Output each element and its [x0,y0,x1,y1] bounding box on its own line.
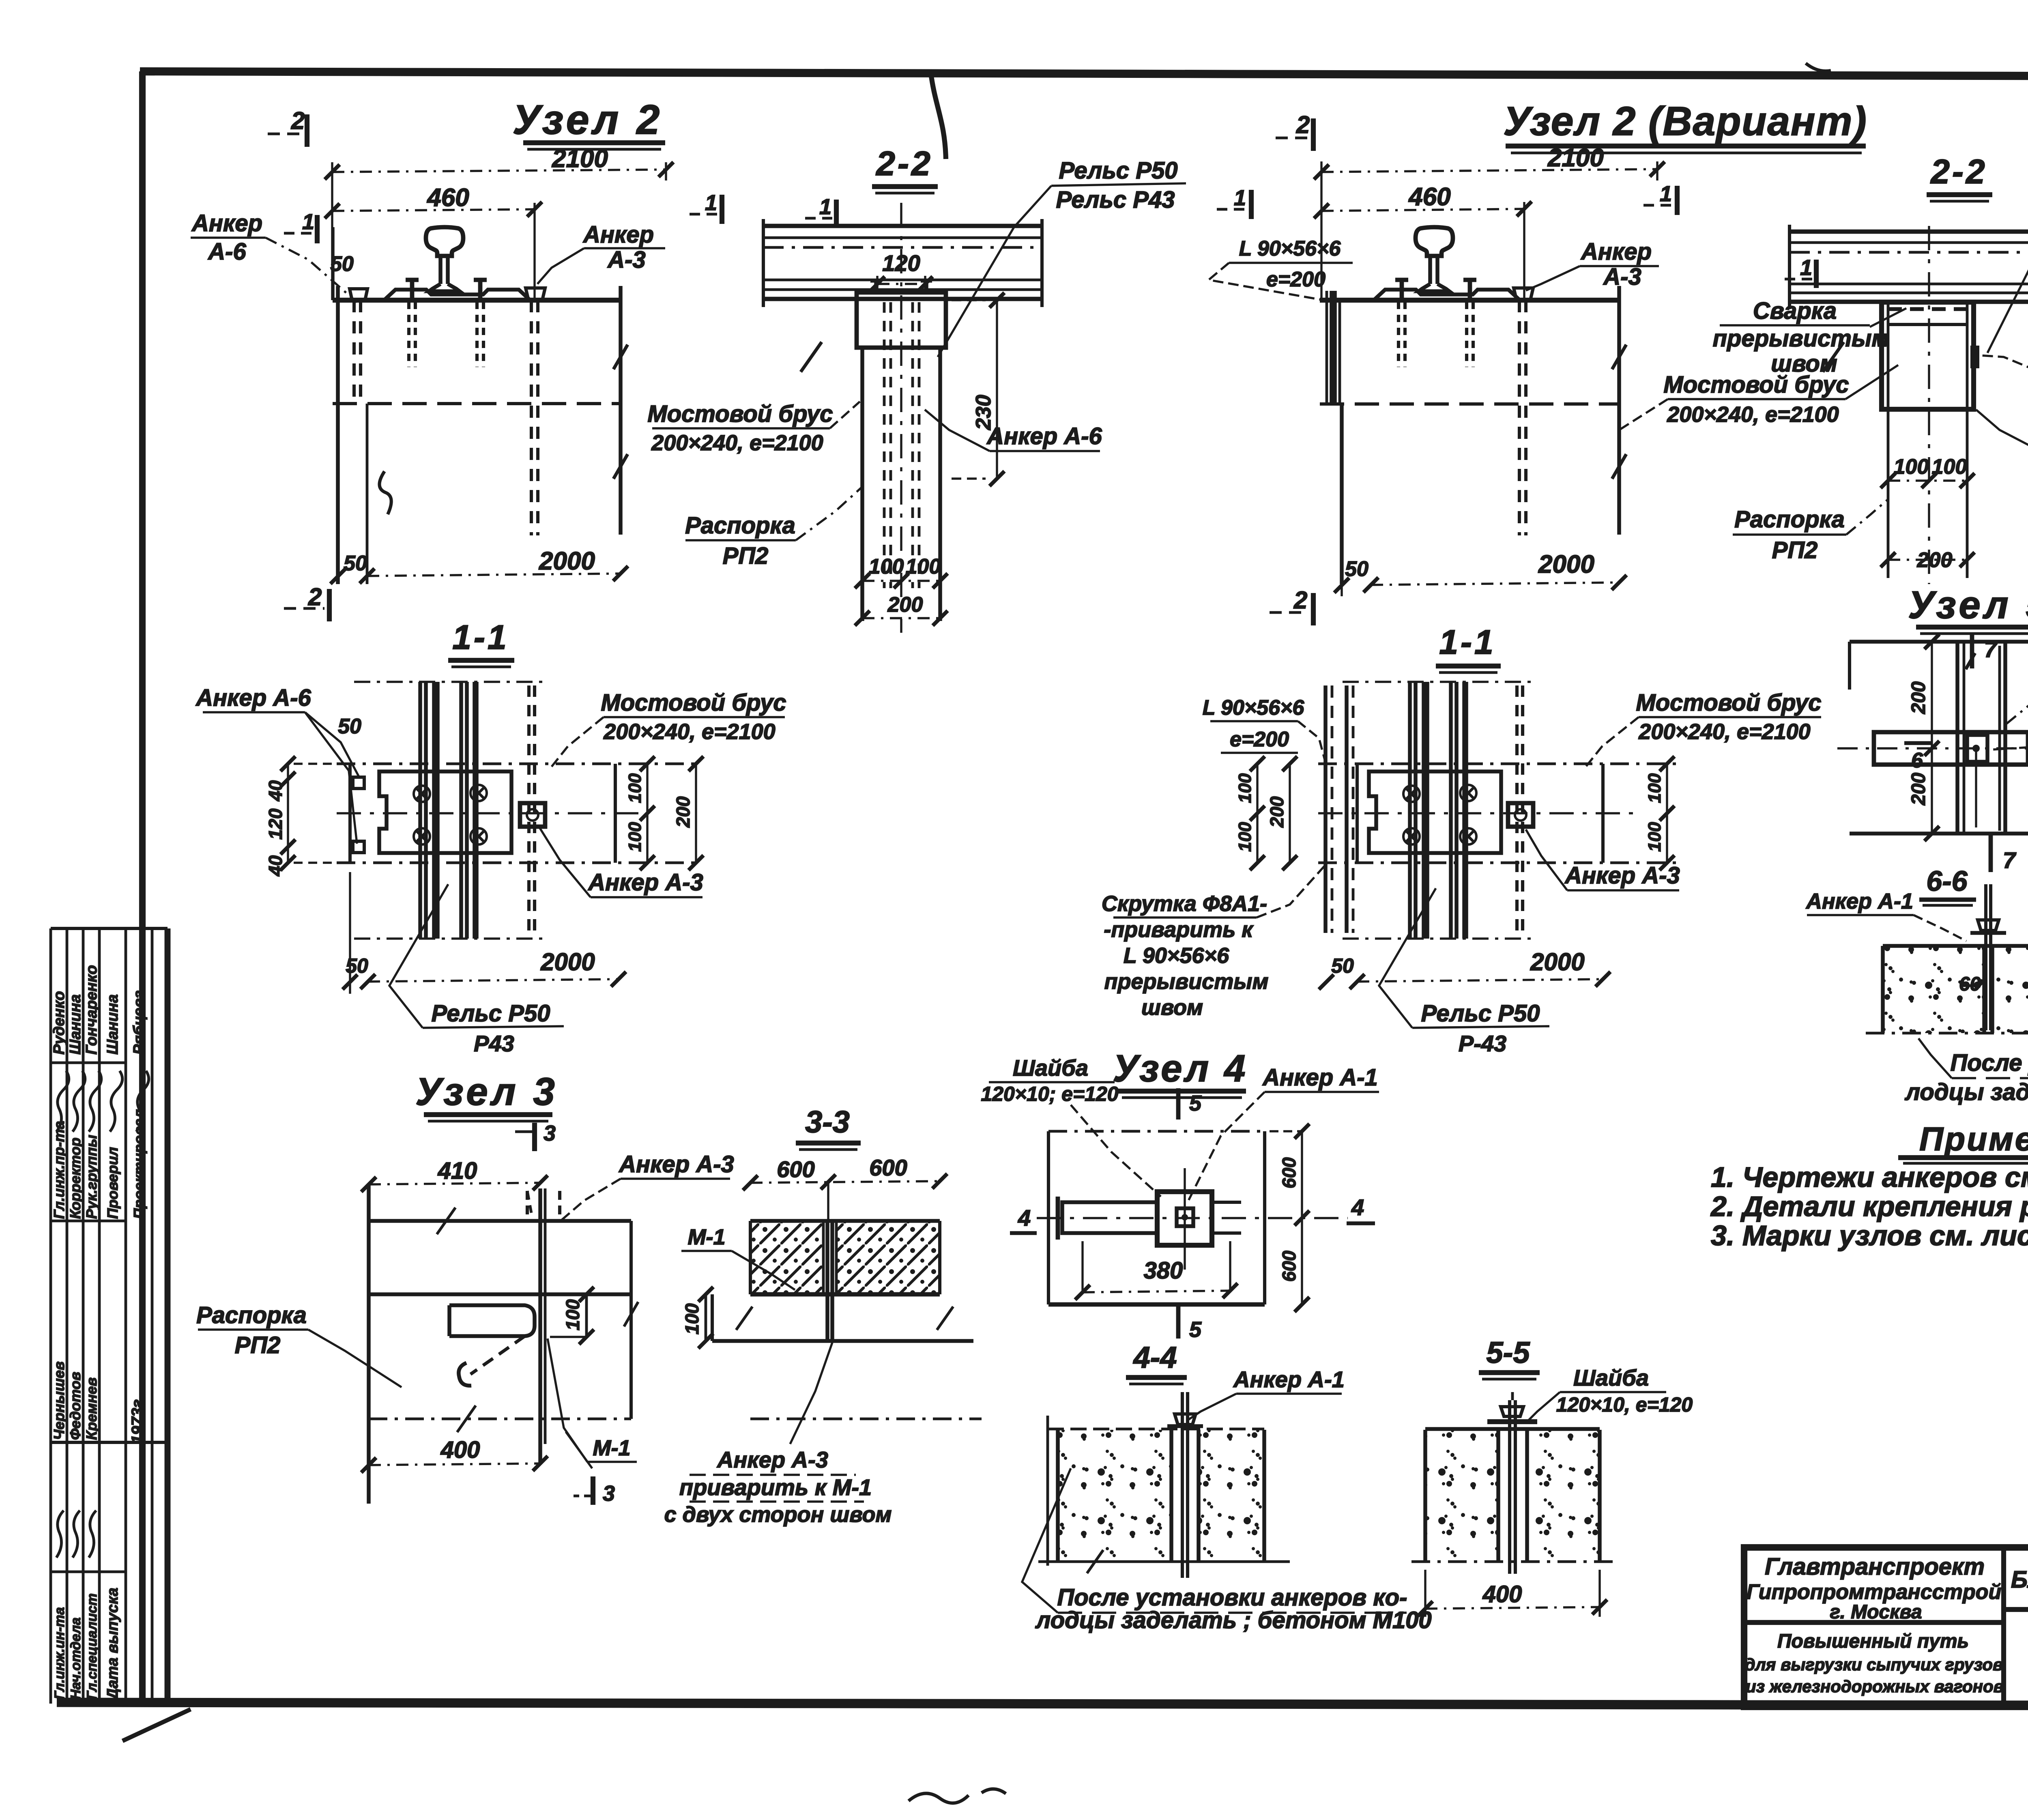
anchor A-3 embedded (left) [526,288,545,535]
svg-text:e=200: e=200 [1230,728,1289,751]
svg-text:М-1: М-1 [688,1225,726,1249]
svg-text:L 90×56×6: L 90×56×6 [1203,696,1305,720]
svg-text:7: 7 [2003,847,2017,873]
svg-text:Рельс Р50: Рельс Р50 [1421,1000,1540,1027]
concrete band hatched (3-3) [750,1221,940,1294]
svg-text:Корректор: Корректор [67,1137,84,1219]
label Mostovoy brus (1-1 variant) [1586,690,1822,767]
rail beam side view (variant 2-2) [1790,225,2028,372]
svg-text:40: 40 [265,780,286,801]
svg-text:Рельс Р43: Рельс Р43 [1056,187,1175,213]
title 4-4 [1126,1341,1187,1384]
section mark 2 bottom (left drawing) [284,583,329,621]
label Rels R50 R43 (1-1 left) [389,884,564,1056]
svg-text:100: 100 [1645,822,1665,852]
section mark 5 bottom (uzel 4) [1178,1306,1202,1342]
section mark 1 right (variant) [1643,182,1677,215]
svg-text:прерывистым: прерывистым [1104,969,1269,994]
dimension 100 100 (variant 2-2) [1881,455,1975,488]
label Rasporka RP2 (uzel 3) [196,1302,402,1387]
rail lines plan (1-1 left) [354,682,545,939]
anchor bolt (4-4) [1167,1392,1203,1578]
svg-text:Гл.инж.пр-та: Гл.инж.пр-та [51,1121,67,1219]
svg-text:1: 1 [1234,186,1246,210]
svg-text:2000: 2000 [540,948,595,976]
svg-text:60: 60 [1959,973,1981,995]
title 3-3 [796,1105,861,1150]
title Uzel 2 [513,97,665,149]
svg-text:с двух сторон швом: с двух сторон швом [664,1502,892,1527]
anchor bar A-1 plan (uzel 5) [1837,732,2028,827]
svg-text:Гипропромтрансстрой: Гипропромтрансстрой [1747,1580,2001,1604]
label Mostovoy brus (1-1 left) [552,690,786,767]
anchor dashed (uzel 3) [527,1191,560,1221]
bolts in plan (1-1 left) [353,777,487,853]
label Anker A-3 (uzel 3) [561,1151,734,1221]
svg-text:600: 600 [1278,1157,1300,1188]
svg-text:2100: 2100 [1547,144,1604,172]
dimensions left side (1-1 variant) [1235,756,1297,870]
title 1-1 (left) [448,618,514,667]
label Anker A-3 (left) [537,221,665,284]
svg-text:200×240, e=2100: 200×240, e=2100 [1667,402,1839,427]
title Uzel 5 [1908,583,2028,634]
svg-text:Гл.специалист: Гл.специалист [84,1593,100,1700]
svg-text:1973г.: 1973г. [129,1395,146,1444]
dimension 2100 (variant) [1314,144,1665,300]
notes title Primechaniya [1898,1121,2028,1163]
svg-text:50: 50 [344,552,367,575]
svg-text:2000: 2000 [539,547,595,575]
dimension 2000 (left elevation) [331,547,628,584]
rail clamp plate (1-1 variant) [1369,771,1501,853]
svg-text:4: 4 [1018,1205,1031,1231]
svg-text:Рук.группы: Рук.группы [83,1135,100,1219]
dimension 400 (5-5) [1418,1570,1607,1617]
svg-text:М-1: М-1 [593,1436,631,1460]
rail profile R50 (left) [384,227,530,300]
svg-text:Анкер А-3: Анкер А-3 [587,869,703,896]
svg-text:РП2: РП2 [1772,537,1818,563]
label Shayba (uzel 4) [981,1055,1161,1197]
svg-text:200: 200 [887,593,923,617]
svg-text:Повышенный путь: Повышенный путь [1777,1631,1969,1652]
dimension 100 100 200 (1-1 left) [625,756,703,870]
label angle L90x56x6 (1-1 variant) [1203,696,1326,763]
revision table left margin [51,928,168,1704]
svg-text:100: 100 [625,773,645,803]
label angle L90x56x6 (variant left) [1209,237,1353,301]
dimension 200 200 (uzel 5) [1908,634,1939,841]
svg-text:Рельс Р50: Рельс Р50 [432,1000,550,1027]
rail lines plan (1-1 variant) [1343,682,1534,939]
section mark 4 marks (uzel 4) [1010,1195,1375,1233]
svg-text:600: 600 [869,1155,907,1180]
svg-text:200×240, e=2100: 200×240, e=2100 [651,431,823,455]
svg-text:2: 2 [291,107,305,134]
svg-text:4-4: 4-4 [1133,1341,1177,1374]
timber band plan (1-1 variant) [1318,764,1679,863]
svg-text:2-2: 2-2 [1930,153,1987,191]
anchor bolt washer (5-5) [1487,1392,1537,1574]
svg-text:Мостовой брус: Мостовой брус [601,690,786,716]
svg-text:Гл.инж.ин-та: Гл.инж.ин-та [52,1607,67,1700]
svg-text:100: 100 [562,1299,583,1330]
dimension 100 (3-3) [681,1287,713,1349]
rail clamp plate (1-1 left) [379,771,511,853]
section mark 2 top (left drawing) [268,107,307,147]
label Mostovoy brus (left 2-2) [647,401,860,455]
title Uzel 4 [1113,1047,1248,1098]
svg-text:Анкер: Анкер [582,221,654,248]
section mark 3 bottom (uzel 3) [574,1476,615,1506]
dimension 410 (uzel 3) [361,1158,548,1192]
label Anker A-1 (uzel 4) [1188,1064,1379,1201]
svg-text:Узел 2 (Вариант): Узел 2 (Вариант) [1503,99,1867,144]
dimension 230 (left 2-2) [952,293,1004,486]
svg-text:Узел 4: Узел 4 [1113,1047,1248,1089]
svg-text:Рябцева: Рябцева [131,990,148,1055]
fold crease mark top center [931,73,946,159]
label Anker A-6 (left 2-2) [925,410,1102,451]
svg-text:2100: 2100 [552,145,608,173]
dimension 40 120 40 (1-1 left) [265,756,337,877]
svg-text:Мостовой брус: Мостовой брус [647,401,833,427]
svg-text:4: 4 [1351,1195,1364,1220]
anchor A-6 embedded (left) [350,289,367,406]
label angle L90x56x6 (variant 2-2) [1979,350,2028,403]
dimension 2000 (1-1 left) [343,872,626,994]
svg-text:Анкер А-1: Анкер А-1 [1262,1064,1378,1091]
section 6-6 concrete [1866,946,2028,1033]
svg-text:Узел 5: Узел 5 [1908,583,2028,627]
note after anchors right [1904,1032,2028,1105]
dimension 50 upper (1-1 left) [338,715,361,738]
svg-text:Дата выпуска: Дата выпуска [104,1588,121,1701]
svg-text:Шайба: Шайба [1573,1365,1649,1390]
section mark 1 (variant 2-2) [1785,256,1816,288]
anchor bar plan (uzel 4) [1058,1168,1241,1270]
svg-text:Р43: Р43 [474,1031,514,1056]
svg-text:Скрутка Ф8А1-: Скрутка Ф8А1- [1102,892,1267,916]
svg-text:Анкер А-3: Анкер А-3 [716,1447,828,1472]
svg-text:Анкер А-6: Анкер А-6 [986,423,1102,449]
svg-text:А-3: А-3 [607,247,645,273]
svg-text:200×240, e=2100: 200×240, e=2100 [603,720,775,744]
svg-text:Узел 2: Узел 2 [513,97,663,143]
svg-text:Распорка: Распорка [1734,506,1845,533]
svg-text:2: 2 [1296,111,1310,138]
dimension 200 (left 2-2) [855,593,948,625]
svg-text:120: 120 [265,808,286,840]
svg-text:2: 2 [308,583,322,610]
svg-text:100: 100 [1235,773,1255,803]
svg-text:380: 380 [1144,1257,1183,1284]
svg-text:лодцы заделать ; бетоном М10: лодцы заделать ; бетоном М100 [1035,1607,1431,1633]
label Rels R50 / Rels R43 (left 2-2) [938,157,1186,357]
label Anker A-6 (1-1 left) [195,685,359,844]
section mark 1 left (variant) [1217,186,1251,219]
svg-text:3: 3 [603,1481,615,1506]
plan rect (uzel 4) [1037,1131,1348,1304]
rail fastening bolts (variant) [1395,280,1476,367]
svg-text:Гончаренко: Гончаренко [83,965,100,1055]
label Anker A-1 (uzel 5) [1992,698,2028,750]
svg-text:50: 50 [1331,954,1354,977]
table signatures column lower [51,1361,146,1701]
svg-text:600: 600 [1278,1251,1300,1282]
svg-text:Блочный тип Н=2,0м и Н=2,5м: Блочный тип Н=2,0м и Н=2,5м [2011,1566,2028,1593]
title block org cell [1747,1554,2001,1623]
svg-text:400: 400 [440,1437,480,1463]
svg-text:приварить к М-1: приварить к М-1 [679,1474,872,1500]
label Rels R50 / R43 (variant 2-2) [1987,162,2028,353]
svg-text:Анкер А-3: Анкер А-3 [1564,862,1680,889]
svg-text:1: 1 [1800,256,1812,280]
svg-text:2000: 2000 [1538,550,1594,578]
block walls (uzel 3) [369,1184,638,1504]
svg-text:L 90×56×6: L 90×56×6 [1239,237,1341,260]
svg-text:Анкер: Анкер [191,210,262,236]
svg-text:Анкер: Анкер [1580,239,1652,265]
svg-text:200: 200 [672,796,694,828]
dimension 600 600 right (uzel 4) [1270,1124,1309,1312]
section 5-5 concrete [1411,1429,1614,1562]
label Rasporka RP2 (variant 2-2) [1733,499,1888,563]
section mark 1 left (left drawing) [284,210,317,243]
svg-text:600: 600 [777,1156,814,1182]
svg-text:Федотов: Федотов [67,1372,84,1440]
skrutka angle bar (variant) [1327,291,1340,404]
anchor A-3 plan (1-1 left) [520,685,545,933]
stray zigzag break mark left of block [379,471,391,514]
skrutka lines (1-1 variant) [1326,685,1353,933]
svg-text:2. Детали крепления рельсов с: 2. Детали крепления рельсов см. листы КМ… [1710,1190,2028,1222]
svg-text:Мостовой брус: Мостовой брус [1636,690,1821,716]
rail profile R50 (variant) [1374,227,1520,300]
dimension 100 (uzel 3) [550,1287,594,1345]
label Anker A-1 (4-4) [1188,1367,1345,1420]
svg-text:410: 410 [438,1158,477,1184]
title 2-2 (variant) [1927,153,1992,201]
timber block Uzel 2 (left elevation) [333,286,628,584]
svg-text:Мостовой брус: Мостовой брус [1663,372,1849,398]
svg-text:200: 200 [1908,773,1929,806]
dimension 100 100 (left 2-2) [855,555,948,588]
svg-text:200: 200 [1908,681,1929,714]
svg-text:Р-43: Р-43 [1459,1031,1506,1056]
dimension 120 (left 2-2) [870,250,933,291]
table signatures column upper [51,965,149,1219]
label Anker A-1 (6-6) [1805,889,1966,941]
dimension 200 (variant 2-2) [1881,548,1975,572]
label Anker A-3 (variant) [1526,239,1659,290]
svg-text:100: 100 [1235,822,1255,852]
label Anker A-8 (uzel 5) [2004,636,2028,726]
svg-text:Главтранспроект: Главтранспроект [1765,1554,1985,1580]
title block project cell [1745,1631,2004,1696]
title block theme cell [2011,1566,2028,1593]
label M-1 (3-3) [681,1225,795,1290]
section mark 7 top (uzel 5) [1966,633,1998,669]
dimension 400 (uzel 3) [361,1437,548,1472]
svg-text:Распорка: Распорка [196,1302,307,1328]
label Shayba (5-5) [1526,1365,1693,1423]
svg-text:120×10; e=120: 120×10; e=120 [981,1083,1118,1105]
title 5-5 [1479,1336,1540,1379]
section mark 1 (left 2-2) [805,195,836,228]
post in plan (uzel 5) [1957,642,2005,834]
svg-text:для выгрузки сыпучих грузов: для выгрузки сыпучих грузов [1745,1655,2003,1674]
svg-text:г. Москва: г. Москва [1830,1601,1922,1623]
svg-text:50: 50 [338,715,361,738]
svg-text:швом: швом [1141,995,1203,1020]
label Rasporka RP2 (left 2-2) [685,487,862,569]
svg-text:3: 3 [544,1121,556,1145]
svg-text:6: 6 [1911,749,1923,772]
svg-text:e=200: e=200 [1266,268,1326,291]
svg-text:100: 100 [1645,773,1665,803]
svg-text:40: 40 [265,855,286,877]
label Anker A-3 (1-1 left) [539,827,703,897]
dimension 2100 (left) [325,145,674,300]
svg-text:100: 100 [1894,455,1929,479]
svg-text:100: 100 [625,822,645,852]
svg-text:Руденко: Руденко [51,991,68,1055]
section mark 5 top (uzel 4) [1178,1088,1202,1120]
svg-text:120×10, e=120: 120×10, e=120 [1556,1393,1693,1416]
stray slash below frame bottom left [122,1709,191,1741]
label Svarka preryvistym shvom [1713,298,1906,377]
section mark 6 marks (uzel 5) [1904,743,2028,791]
svg-text:100: 100 [681,1303,702,1334]
timber band plan (1-1 left) [337,764,702,863]
section mark 3 top (uzel 3) [515,1121,556,1151]
svg-text:из железнодорожных вагонов: из железнодорожных вагонов [1746,1677,2004,1696]
svg-text:Шайба: Шайба [1013,1055,1088,1081]
svg-text:Анкер А-6: Анкер А-6 [195,685,311,711]
dimension 2000 (1-1 variant) [1319,948,1611,989]
section mark 2 top (variant) [1276,111,1313,151]
section mark 1 right (left drawing) [690,191,722,224]
svg-text:6-6: 6-6 [1926,865,1968,897]
label M-1 (uzel 3) [548,1339,637,1468]
section mark 7 bottom (uzel 5) [1991,835,2017,873]
note skrutka privarit (variant) [1102,864,1326,1020]
svg-text:1. Чертежи анкеров см. лист К: 1. Чертежи анкеров см. лист КМ-7. [1711,1161,2028,1193]
section mark 2 bottom (variant) [1270,587,1313,625]
svg-text:Проверил: Проверил [104,1147,121,1219]
anchor bolt (6-6) [1959,884,2006,1030]
svg-text:Анкер А-3: Анкер А-3 [618,1151,734,1178]
plan square (uzel 5) [1850,642,2028,834]
svg-text:100: 100 [906,555,941,578]
svg-text:Кремнев: Кремнев [83,1377,100,1440]
svg-text:200: 200 [1266,796,1287,828]
svg-text:Нач.отдела: Нач.отдела [68,1618,84,1700]
label Rels R50 R43 (1-1 variant) [1379,888,1549,1056]
svg-text:После установки анкеров ко-: После установки анкеров ко- [1951,1050,2028,1076]
dimension 460 (left) [325,184,542,299]
svg-text:Чернышев: Чернышев [51,1361,67,1440]
svg-text:лодцы заделать бетоном М100: лодцы заделать бетоном М100 [1904,1079,2028,1105]
welded post box (variant 2-2) [1882,226,1979,584]
svg-text:А-3: А-3 [1603,264,1641,290]
svg-text:3. Марки узлов см. лист ЯС-2,: 3. Марки узлов см. лист ЯС-2, ЯС-11. [1711,1220,2028,1251]
svg-text:РП2: РП2 [723,543,769,569]
anchor A-3 embedded (variant) [1514,288,1533,535]
svg-text:Рельс Р50: Рельс Р50 [1059,157,1178,184]
bent anchor skoba (uzel 3) [449,1305,535,1386]
bolts in plan (1-1 variant) [1403,785,1476,844]
dimension 600 600 (3-3) [743,1155,947,1221]
timber block Uzel 2 (variant elevation) [1320,286,1626,584]
post top bolts (left 2-2) [870,279,932,294]
svg-text:РП2: РП2 [235,1332,281,1358]
post timber (left 2-2) [857,203,946,633]
svg-text:Узел 3: Узел 3 [415,1070,558,1113]
title block outer [1744,1547,2028,1707]
svg-text:460: 460 [1408,183,1450,211]
title 2-2 (left) [872,144,938,193]
label Mostovoy brus (variant) [1619,365,1898,430]
dimension 2000 (variant elevation) [1334,544,1627,596]
svg-text:5: 5 [1189,1091,1202,1115]
svg-text:Анкер А-1: Анкер А-1 [1233,1367,1345,1392]
dimension 380 (uzel 4) [1075,1241,1238,1300]
svg-text:1: 1 [705,191,717,215]
rail beam side view (left 2-2) [763,219,1042,372]
label Skrutka F8AT (variant 2-2) [1976,410,2028,451]
svg-text:3-3: 3-3 [805,1105,850,1139]
svg-text:1: 1 [302,210,314,234]
joint lines (3-3) [827,1222,832,1341]
dimensions right side (1-1 variant) [1645,756,1674,870]
svg-text:2-2: 2-2 [875,144,932,183]
svg-text:1: 1 [1660,182,1672,206]
svg-text:А-6: А-6 [207,239,246,265]
note anker privarit (3-3) [664,1343,892,1527]
svg-text:-приварить к: -приварить к [1104,918,1254,942]
svg-text:1-1: 1-1 [452,618,509,656]
stray pen marks above 2-2 right title [1806,63,1831,71]
svg-text:Шанина: Шанина [104,994,121,1055]
svg-text:прерывистым: прерывистым [1713,325,1889,352]
svg-text:1-1: 1-1 [1439,623,1495,661]
svg-text:200×240, e=2100: 200×240, e=2100 [1638,720,1810,744]
label Anker A-6 (left) [191,210,357,302]
title Uzel 3 [415,1070,558,1121]
svg-text:Примечания:: Примечания: [1919,1121,2028,1158]
title 1-1 (variant) [1436,623,1501,673]
svg-text:5: 5 [1189,1317,1202,1342]
title 6-6 [1919,865,1976,905]
svg-text:Шанина: Шанина [67,994,84,1055]
svg-text:Распорка: Распорка [685,512,795,539]
svg-text:2000: 2000 [1530,948,1584,976]
svg-text:5-5: 5-5 [1487,1336,1531,1369]
svg-text:L 90×56×6: L 90×56×6 [1124,943,1229,968]
stray handwriting below frame center [909,1789,1006,1803]
lower band (3-3) [712,1294,982,1419]
svg-text:2: 2 [1293,587,1307,614]
dimension 50 small (left elevation) [330,227,354,300]
anchor A-3 plan (1-1 variant) [1508,685,1533,933]
svg-text:1: 1 [819,195,831,219]
dimension 460 (variant) [1314,183,1532,299]
label Anker A-3 (1-1 variant) [1526,829,1680,890]
title Uzel 2 (Variant) [1503,99,1867,153]
